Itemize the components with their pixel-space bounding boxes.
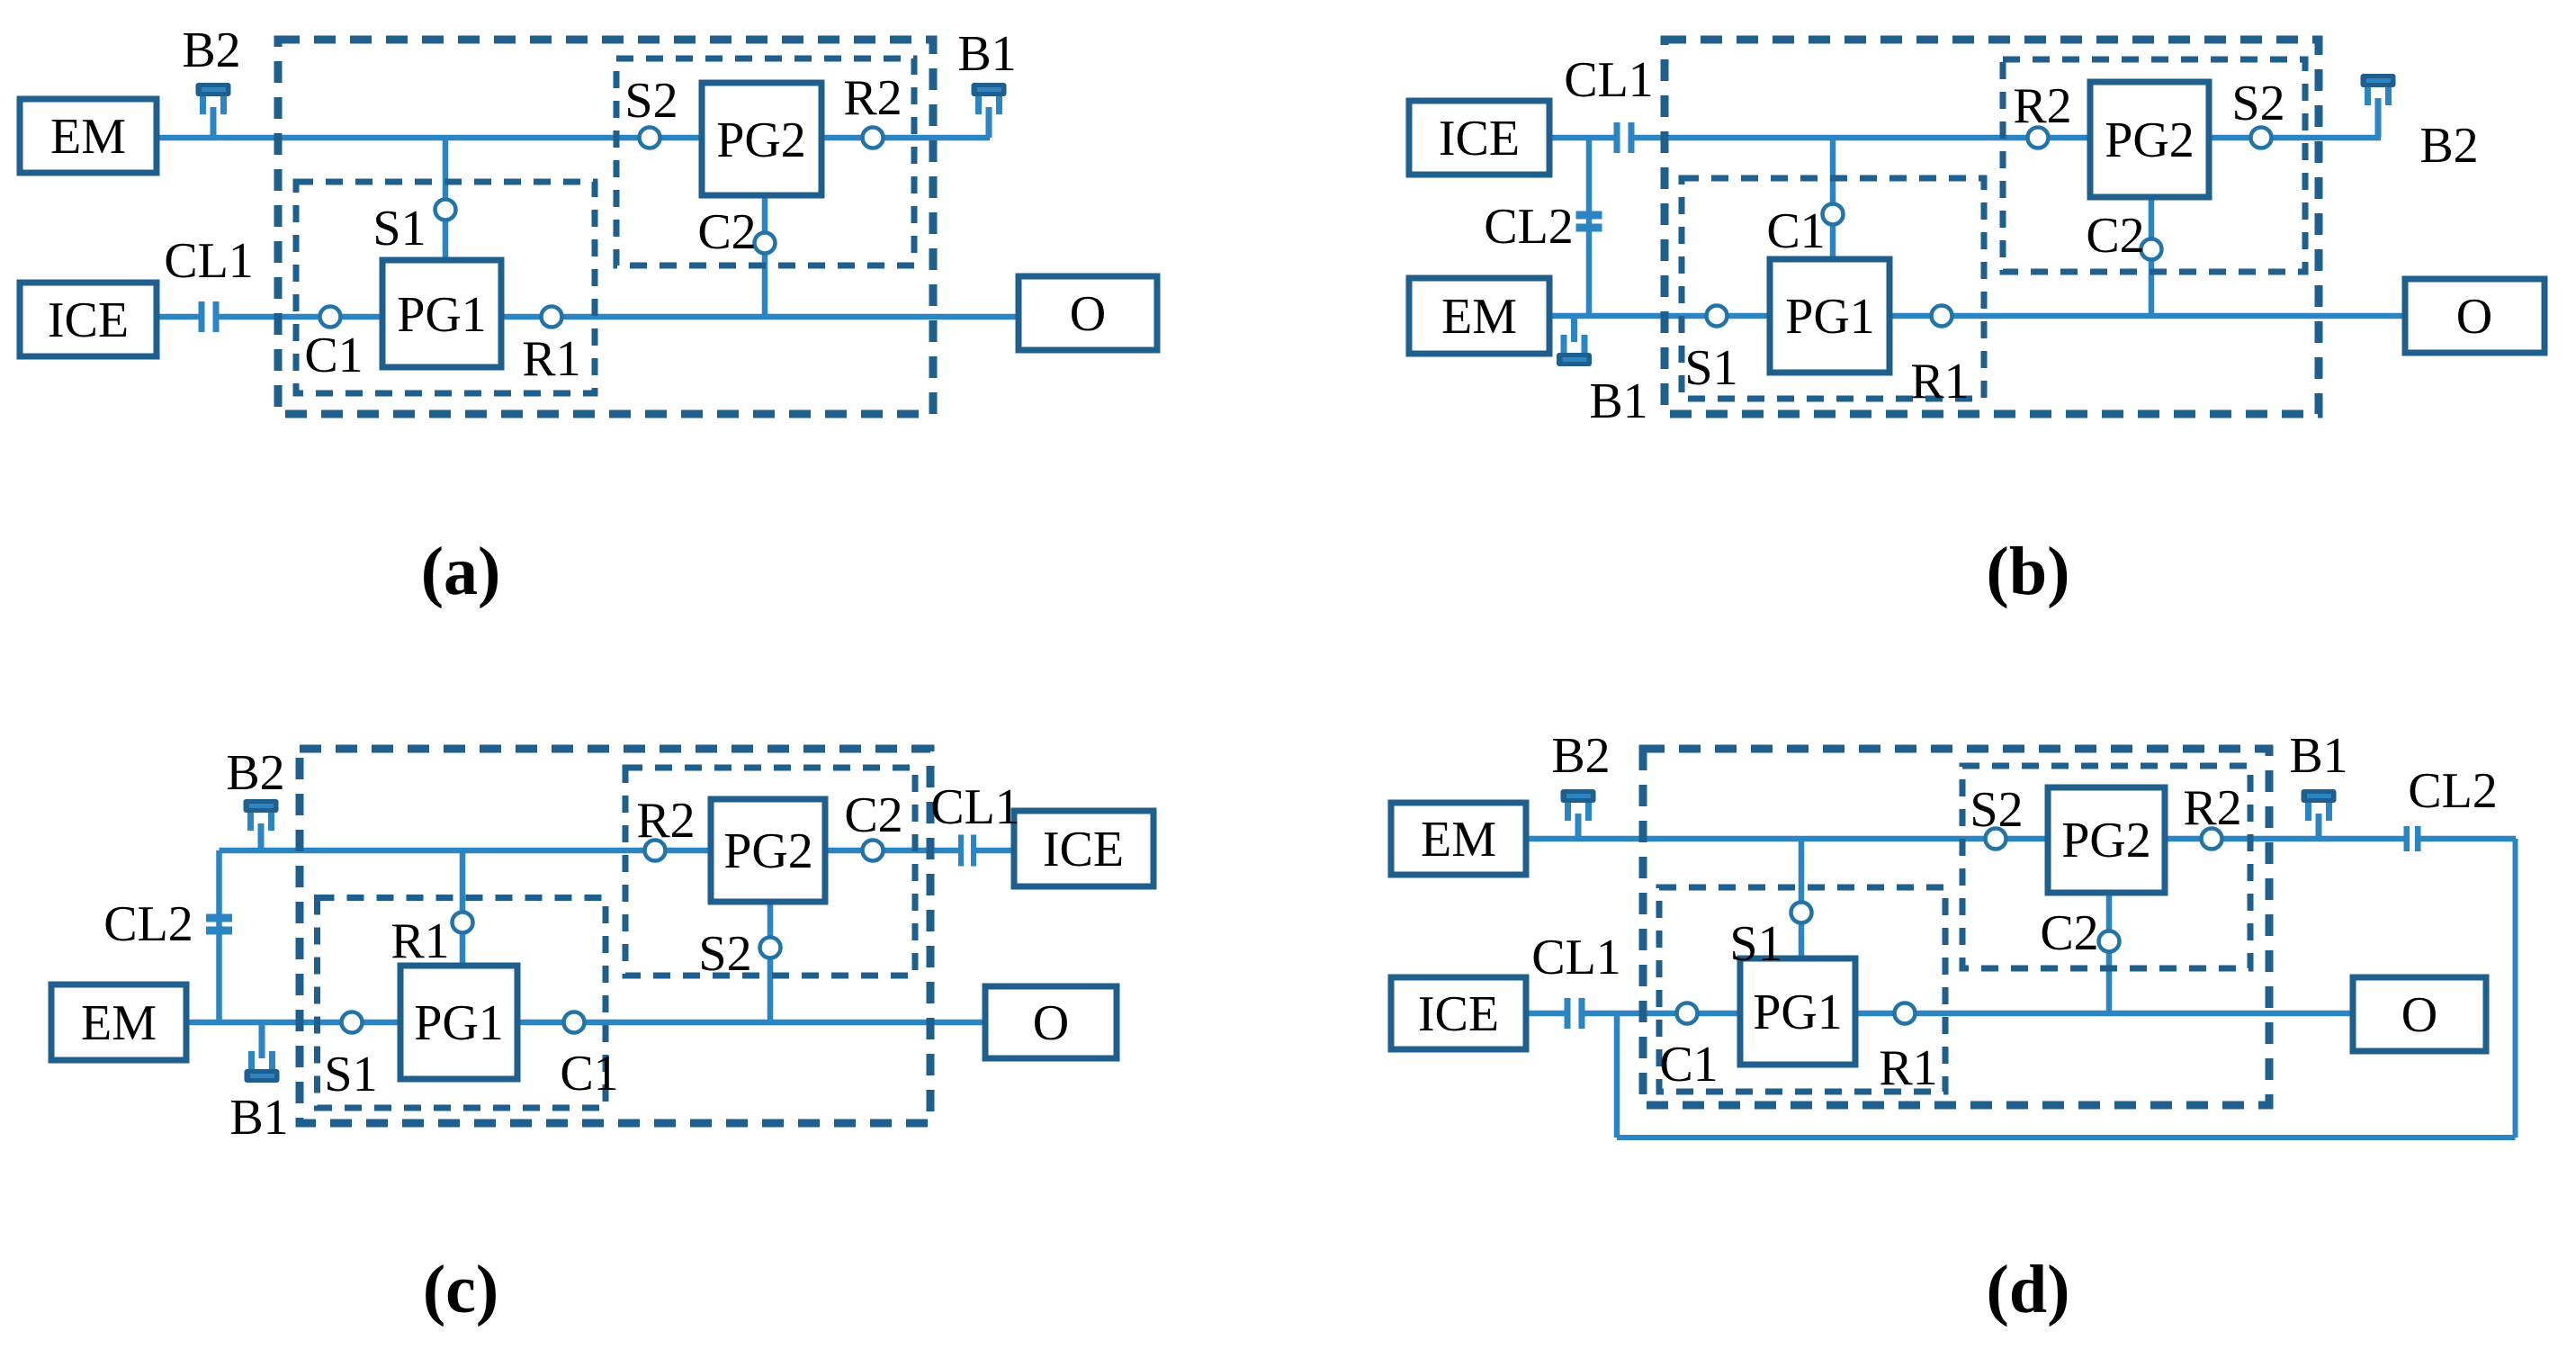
compound dashed boundary outer (a) xyxy=(278,40,933,414)
box EM (a) xyxy=(20,99,157,173)
node R1 (c) xyxy=(453,913,473,933)
brake B2 (d) xyxy=(1561,789,1596,839)
node C1 (a) xyxy=(320,307,341,328)
svg-text:O: O xyxy=(1070,286,1106,342)
wire S1 drop (d) xyxy=(1799,839,1805,961)
svg-text:CL2: CL2 xyxy=(1484,199,1574,255)
box ICE (a) xyxy=(20,283,157,356)
wire C2 drop (b) xyxy=(2149,194,2155,316)
svg-text:R1: R1 xyxy=(522,331,580,387)
svg-text:R2: R2 xyxy=(2013,78,2071,134)
svg-text:ICE: ICE xyxy=(1043,822,1124,877)
box PG2 planetary gear (c) xyxy=(711,799,825,902)
node S1 (d) xyxy=(1791,903,1812,923)
wire C1 drop (b) xyxy=(1830,138,1836,262)
svg-text:CL1: CL1 xyxy=(930,779,1020,835)
clutch CL1 (c) xyxy=(958,835,976,867)
svg-text:(a): (a) xyxy=(421,534,501,609)
node S1 (c) xyxy=(342,1012,363,1033)
PG2 dashed boundary (a) xyxy=(616,58,914,265)
node C1 (b) xyxy=(1823,204,1844,225)
box ICE (b) xyxy=(1409,101,1549,175)
node S2 (c) xyxy=(760,938,781,958)
wire bottom feedback (d) xyxy=(1617,1135,2516,1140)
wire EM output shaft (a) xyxy=(157,135,990,141)
wire R1 drop (c) xyxy=(460,850,466,968)
svg-text:S2: S2 xyxy=(2231,76,2284,131)
node R2 (c) xyxy=(645,841,666,861)
svg-text:PG1: PG1 xyxy=(1785,289,1875,345)
node C2 (c) xyxy=(863,841,884,861)
svg-text:ICE: ICE xyxy=(1439,111,1520,166)
clutch CL2 (c) xyxy=(206,914,232,935)
PG1 dashed boundary (a) xyxy=(296,182,595,393)
svg-text:S2: S2 xyxy=(1970,782,2023,838)
compound dashed boundary outer (b) xyxy=(1665,40,2319,414)
node R2 (b) xyxy=(2028,128,2049,148)
box EM (b) xyxy=(1409,278,1549,354)
node R1 (d) xyxy=(1895,1003,1916,1024)
wire S2 drop (c) xyxy=(767,899,774,1022)
box PG2 planetary gear (a) xyxy=(702,83,821,195)
box O output (a) xyxy=(1019,276,1157,350)
svg-text:C2: C2 xyxy=(844,787,902,843)
svg-text:EM: EM xyxy=(50,109,126,165)
brake B1 (c) xyxy=(245,1022,280,1083)
svg-text:PG2: PG2 xyxy=(2061,813,2151,868)
node S2 (d) xyxy=(1986,829,2006,850)
box ICE (d) xyxy=(1391,977,1526,1049)
svg-text:C1: C1 xyxy=(304,328,363,383)
clutch CL1 (a) xyxy=(199,301,220,332)
wire EM shaft to O (c) xyxy=(186,1020,985,1026)
wire CL2 to corner (d) xyxy=(2420,836,2516,842)
svg-text:C1: C1 xyxy=(1659,1037,1718,1093)
box ICE (c) xyxy=(1014,811,1153,886)
wire CL2 vertical link (b) xyxy=(1586,138,1593,316)
box EM (c) xyxy=(51,985,186,1060)
box PG1 planetary gear (d) xyxy=(1740,958,1855,1065)
svg-text:S1: S1 xyxy=(372,201,426,256)
svg-text:R1: R1 xyxy=(1910,354,1969,409)
svg-text:PG2: PG2 xyxy=(716,112,806,168)
PG2 dashed boundary (b) xyxy=(2003,59,2305,272)
wire CL2 left vertical (c) xyxy=(216,850,222,1022)
brake B1 (d) xyxy=(2302,789,2337,839)
svg-text:S2: S2 xyxy=(698,926,751,982)
box O output (b) xyxy=(2405,279,2545,353)
svg-text:B2: B2 xyxy=(2419,118,2478,174)
node C1 (c) xyxy=(564,1012,585,1033)
svg-text:C2: C2 xyxy=(2086,208,2144,264)
box PG1 planetary gear (a) xyxy=(382,260,501,367)
svg-text:R2: R2 xyxy=(636,793,695,849)
brake B2 (c) xyxy=(244,799,279,850)
svg-text:ICE: ICE xyxy=(1418,986,1499,1042)
svg-text:O: O xyxy=(1033,995,1069,1051)
node R2 (a) xyxy=(863,128,884,148)
svg-text:C2: C2 xyxy=(697,204,756,260)
box O output (d) xyxy=(2353,977,2486,1051)
svg-text:C1: C1 xyxy=(560,1046,618,1102)
wire clutch to ICE stub (c) xyxy=(976,848,1014,854)
node C2 (b) xyxy=(2141,239,2162,260)
box O output (c) xyxy=(985,986,1117,1058)
wire left feedback drop (d) xyxy=(1614,1013,1620,1138)
svg-text:S1: S1 xyxy=(324,1047,377,1102)
wire ICE shaft to PG1 and O (d) xyxy=(1584,1011,2353,1017)
svg-text:S2: S2 xyxy=(624,73,678,129)
node R1 (b) xyxy=(1932,306,1952,327)
node S1 (b) xyxy=(1707,306,1728,327)
svg-text:S1: S1 xyxy=(1684,340,1737,396)
svg-text:B1: B1 xyxy=(2289,728,2347,784)
box PG1 planetary gear (c) xyxy=(400,966,517,1079)
svg-text:CL1: CL1 xyxy=(164,233,254,289)
node S2 (b) xyxy=(2251,128,2272,148)
svg-text:PG1: PG1 xyxy=(1753,985,1843,1040)
svg-text:O: O xyxy=(2401,987,2437,1043)
box EM (d) xyxy=(1391,803,1526,875)
brake B1 (b) xyxy=(1557,316,1592,366)
svg-text:CL2: CL2 xyxy=(103,896,193,952)
wire top shaft to ICE (c) xyxy=(220,848,960,854)
svg-text:B1: B1 xyxy=(1589,373,1647,429)
box PG2 planetary gear (b) xyxy=(2090,82,2209,197)
clutch CL1 (d) xyxy=(1565,998,1585,1029)
node S2 (a) xyxy=(640,128,660,148)
PG1 dashed boundary (b) xyxy=(1682,178,1984,399)
svg-text:B2: B2 xyxy=(1551,728,1610,784)
svg-text:EM: EM xyxy=(1421,812,1496,868)
wire right vertical feedback (d) xyxy=(2513,839,2518,1138)
svg-text:CL2: CL2 xyxy=(2408,763,2498,819)
node R1 (a) xyxy=(542,307,562,328)
brake B1 (a) xyxy=(972,83,1007,138)
wire EM shaft to CL2 (d) xyxy=(1526,836,2404,842)
svg-text:B1: B1 xyxy=(957,26,1016,82)
svg-text:EM: EM xyxy=(1441,289,1517,345)
node S1 (a) xyxy=(435,200,456,220)
compound dashed boundary outer (d) xyxy=(1643,749,2269,1105)
PG1 dashed boundary (c) xyxy=(318,898,606,1109)
clutch CL2 (b) xyxy=(1576,211,1602,232)
wire EM shaft to PG1 and O (b) xyxy=(1549,313,2405,319)
compound dashed boundary outer (c) xyxy=(300,749,930,1123)
clutch CL1 (b) xyxy=(1614,122,1635,153)
PG2 dashed boundary (d) xyxy=(1962,766,2250,968)
svg-text:PG1: PG1 xyxy=(414,995,504,1051)
wire ICE shaft left of clutch (d) xyxy=(1526,1011,1566,1017)
svg-text:ICE: ICE xyxy=(48,292,129,348)
box PG1 planetary gear (b) xyxy=(1770,259,1889,373)
node C1 (d) xyxy=(1677,1003,1698,1024)
node C2 (a) xyxy=(755,233,776,254)
wire ICE shaft to PG2 and B2 (b) xyxy=(1634,135,2381,141)
svg-text:EM: EM xyxy=(81,995,157,1051)
wire ICE input left of clutch (a) xyxy=(157,314,200,320)
svg-text:O: O xyxy=(2456,289,2492,345)
svg-text:PG2: PG2 xyxy=(723,823,813,879)
svg-text:R1: R1 xyxy=(390,913,449,969)
svg-text:B2: B2 xyxy=(226,745,284,801)
svg-text:CL1: CL1 xyxy=(1564,52,1654,108)
svg-text:B2: B2 xyxy=(182,22,240,78)
wire ICE shaft left of clutch (b) xyxy=(1549,135,1614,141)
svg-text:(d): (d) xyxy=(1987,1252,2070,1327)
wire C2 drop (d) xyxy=(2106,890,2113,1013)
svg-text:CL1: CL1 xyxy=(1531,930,1621,985)
svg-text:C1: C1 xyxy=(1766,203,1825,259)
node C2 (d) xyxy=(2099,931,2120,952)
brake B2 (b) xyxy=(2361,74,2396,138)
svg-text:C2: C2 xyxy=(2040,905,2098,961)
PG2 dashed boundary (c) xyxy=(625,768,915,976)
svg-text:PG2: PG2 xyxy=(2105,112,2195,168)
box PG2 planetary gear (d) xyxy=(2048,787,2165,893)
svg-text:(c): (c) xyxy=(423,1252,498,1327)
wire C2 drop (a) xyxy=(762,193,768,317)
svg-text:PG1: PG1 xyxy=(397,287,487,343)
svg-text:R2: R2 xyxy=(843,70,902,126)
svg-text:R2: R2 xyxy=(2183,780,2241,836)
svg-text:R1: R1 xyxy=(1879,1040,1937,1096)
wire S1 drop (a) xyxy=(443,138,449,263)
svg-text:(b): (b) xyxy=(1987,534,2070,609)
PG1 dashed boundary (d) xyxy=(1659,887,1945,1092)
svg-text:S1: S1 xyxy=(1729,916,1782,972)
clutch CL2 (d) xyxy=(2404,826,2421,851)
node R2 (d) xyxy=(2202,829,2222,850)
wire ICE shaft to PG1 and O (a) xyxy=(218,314,1019,320)
svg-text:B1: B1 xyxy=(229,1090,288,1146)
brake B2 (a) xyxy=(196,83,231,138)
